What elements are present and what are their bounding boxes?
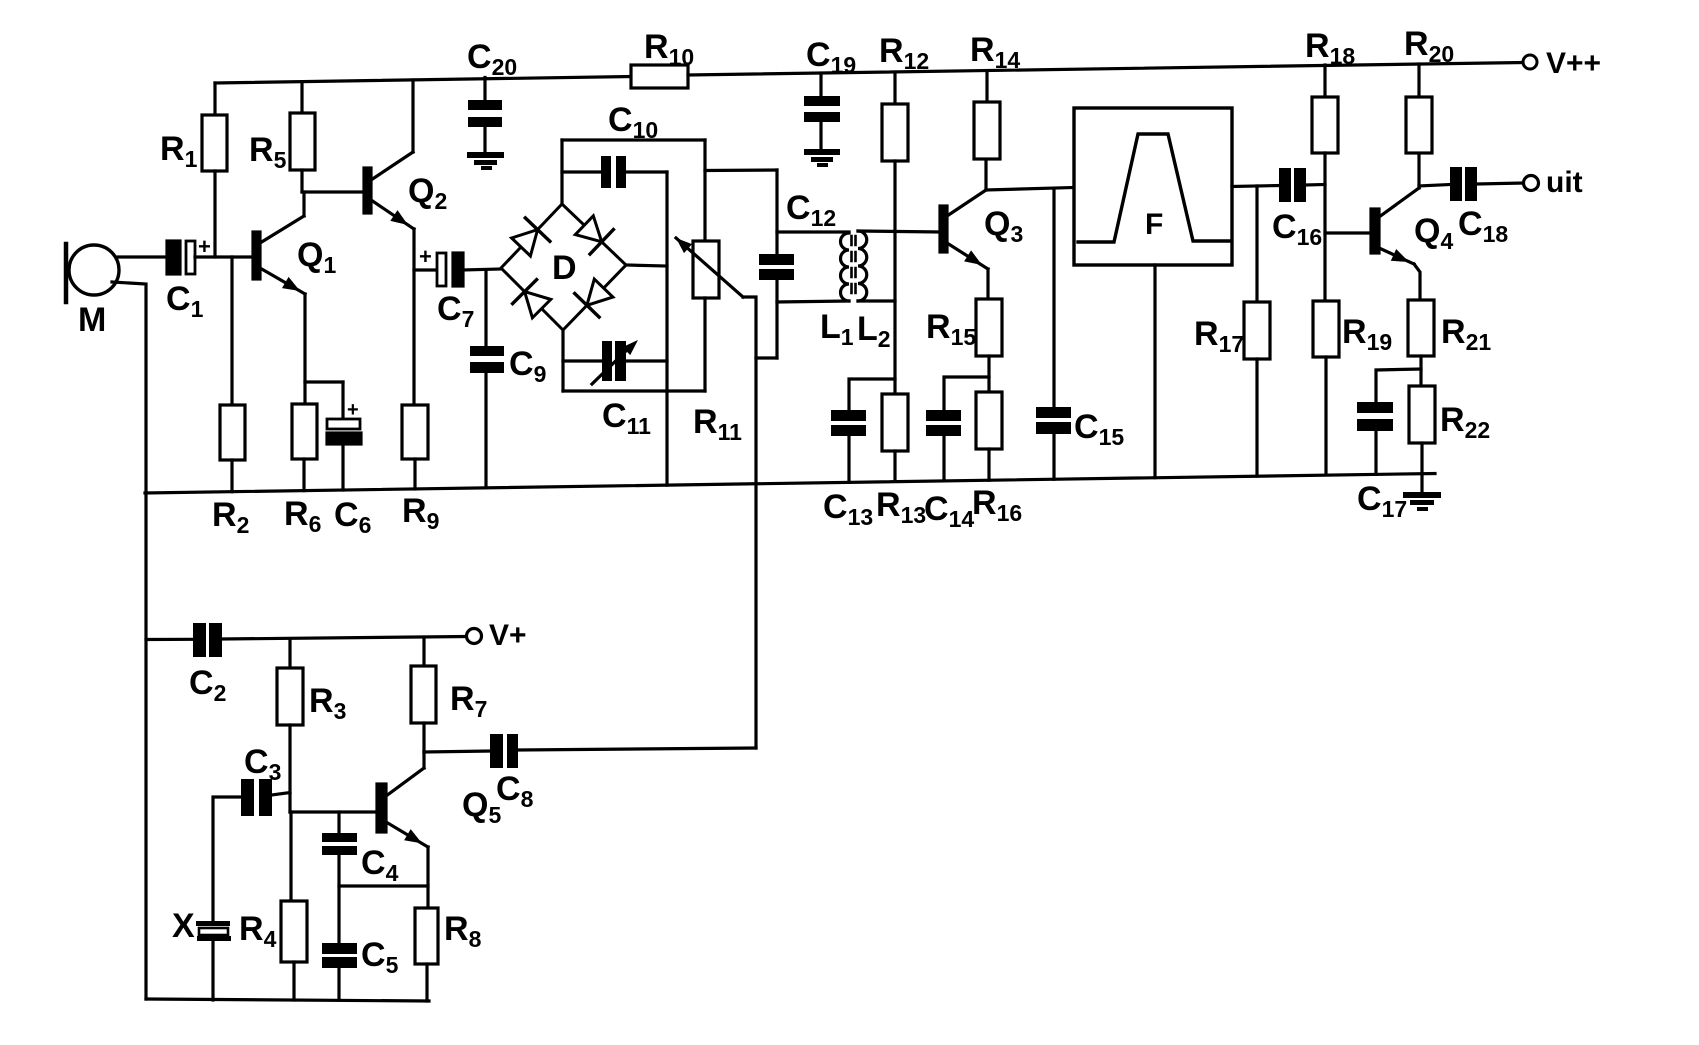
capacitor C5 bbox=[322, 943, 357, 954]
resistor R4 bbox=[289, 812, 292, 901]
resistor R12 bbox=[893, 73, 896, 105]
resistor R14 bbox=[985, 71, 988, 102]
resistor R11 (variable) bbox=[703, 140, 706, 241]
microphone M bbox=[69, 245, 119, 295]
filter F box bbox=[1074, 108, 1232, 265]
wire Q1 collector to Q2 base bbox=[302, 190, 364, 193]
svg-text:F: F bbox=[1145, 208, 1163, 241]
wire Q1 emitter down bbox=[303, 294, 306, 404]
resistor R21 bbox=[1408, 300, 1434, 356]
wire to Q4 base bbox=[1325, 231, 1371, 234]
resistor R20 bbox=[1417, 64, 1420, 97]
svg-text:X: X bbox=[172, 907, 195, 945]
capacitor C18 bbox=[1450, 167, 1462, 201]
capacitor C3 bbox=[213, 797, 241, 921]
wire bottom rail bbox=[146, 999, 429, 1001]
svg-text:+: + bbox=[347, 399, 359, 421]
capacitor C7 bbox=[437, 253, 446, 286]
wire ground rail bbox=[145, 474, 1435, 494]
node V+ terminal bbox=[467, 629, 482, 644]
resistor R9 bbox=[402, 405, 428, 459]
capacitor C13 bbox=[849, 379, 895, 410]
capacitor C11 (variable) bbox=[563, 359, 602, 362]
capacitor C4 bbox=[337, 812, 340, 833]
wire bridge right corner bbox=[626, 265, 667, 266]
transistor Q1 bbox=[253, 232, 260, 279]
resistor R15 bbox=[986, 269, 989, 299]
wire V++ rail left segment bbox=[215, 77, 631, 84]
diode bridge D outline bbox=[501, 204, 626, 330]
resistor R17 bbox=[1255, 186, 1258, 302]
wire R11 top node to C12 bbox=[705, 168, 777, 172]
wire C7 to bridge bbox=[463, 269, 501, 270]
resistor R3 bbox=[288, 640, 291, 668]
wire Q3 collector to filter bbox=[986, 188, 1074, 191]
svg-text:V++: V++ bbox=[1546, 47, 1601, 80]
resistor R10 bbox=[631, 65, 688, 88]
inductor L1 bbox=[777, 230, 849, 233]
capacitor C6 bbox=[341, 382, 344, 419]
wire C10 top bbox=[562, 138, 705, 141]
ground for C20 bbox=[467, 152, 504, 158]
wire bridge top to C10 loop bbox=[560, 140, 563, 204]
inductor L2 bbox=[858, 231, 867, 301]
transistor Q5 bbox=[377, 784, 386, 832]
capacitor C1 bbox=[167, 241, 180, 274]
transistor Q4 bbox=[1371, 209, 1379, 253]
wire C10 right to long vertical bbox=[626, 170, 667, 173]
wire C18 to uit bbox=[1477, 183, 1523, 184]
diode D-lower-left bbox=[525, 292, 551, 318]
capacitor C14 bbox=[944, 377, 989, 410]
capacitor C10 bbox=[562, 170, 601, 173]
wire R21/R22 node to C17 bbox=[1376, 369, 1421, 402]
resistor R13 bbox=[882, 394, 908, 451]
node V++ terminal bbox=[1523, 55, 1537, 69]
wire C2 to V+ bbox=[222, 637, 466, 640]
svg-text:M: M bbox=[78, 301, 106, 339]
svg-text:V+: V+ bbox=[489, 619, 527, 652]
wire emitter branch to C6 bbox=[305, 380, 343, 383]
wire collector node to C8 bbox=[424, 751, 490, 752]
resistor R18 bbox=[1323, 65, 1326, 97]
capacitor C2 bbox=[193, 623, 206, 657]
wire emitter to C7 bbox=[414, 268, 437, 271]
wire bridge bottom corner bbox=[561, 330, 564, 391]
capacitor C12 bbox=[775, 170, 778, 254]
wire C8 feedback to R11 wiper bbox=[518, 748, 756, 750]
crystal X bbox=[196, 921, 230, 926]
resistor R8 bbox=[415, 908, 438, 964]
resistor R5 bbox=[300, 82, 303, 113]
wire Q5 base bbox=[290, 810, 377, 813]
capacitor C19 bbox=[819, 74, 822, 97]
wire F output bbox=[1232, 186, 1279, 187]
capacitor C9 bbox=[484, 270, 487, 346]
wire V++ rail right segment bbox=[688, 63, 1523, 76]
diode D-upper-right bbox=[575, 216, 601, 242]
capacitor C20 bbox=[483, 78, 486, 101]
diode D-lower-right bbox=[587, 279, 613, 305]
diode D-upper-left bbox=[512, 230, 538, 256]
wire C4/C5 node to emitter bbox=[339, 884, 428, 887]
resistor R6 bbox=[292, 404, 317, 459]
wire M bottom to ground column bbox=[112, 282, 146, 999]
ground for C19 bbox=[804, 149, 840, 155]
capacitor C15 bbox=[1052, 189, 1055, 407]
wire R11 wiper to C12 bottom node bbox=[756, 356, 777, 359]
wire F bottom to rail bbox=[1153, 265, 1156, 478]
wire long vertical node to rail bbox=[665, 172, 668, 485]
transformer core bbox=[850, 236, 853, 298]
node uit terminal bbox=[1524, 176, 1539, 191]
transistor Q3 bbox=[940, 206, 947, 252]
capacitor C8 bbox=[490, 734, 503, 768]
capacitor C16 bbox=[1279, 168, 1291, 202]
wire Q4 collector to C18 bbox=[1419, 185, 1450, 187]
resistor R22 bbox=[1409, 386, 1435, 443]
resistor R16 bbox=[976, 392, 1002, 449]
capacitor C17 bbox=[1357, 402, 1393, 413]
wire Q5 collector bbox=[422, 752, 425, 768]
resistor R2 bbox=[230, 257, 233, 405]
wire Q2 emitter down bbox=[412, 229, 415, 405]
wire bridge bottom horizontal bbox=[563, 389, 705, 392]
svg-text:uit: uit bbox=[1546, 166, 1583, 199]
resistor R19 bbox=[1313, 301, 1339, 357]
svg-text:D: D bbox=[552, 249, 577, 287]
wire M to C1 bbox=[118, 255, 167, 258]
resistor R7 bbox=[422, 638, 425, 666]
transistor Q2 bbox=[364, 168, 371, 213]
wire Q5 emitter down bbox=[426, 847, 429, 908]
wire C1 to Q1 base bbox=[195, 255, 253, 258]
wire V+ feed bbox=[146, 638, 193, 641]
ground main bbox=[1420, 474, 1423, 492]
svg-text:+: + bbox=[419, 244, 432, 269]
resistor R1 bbox=[213, 83, 216, 115]
svg-text:+: + bbox=[198, 234, 211, 259]
